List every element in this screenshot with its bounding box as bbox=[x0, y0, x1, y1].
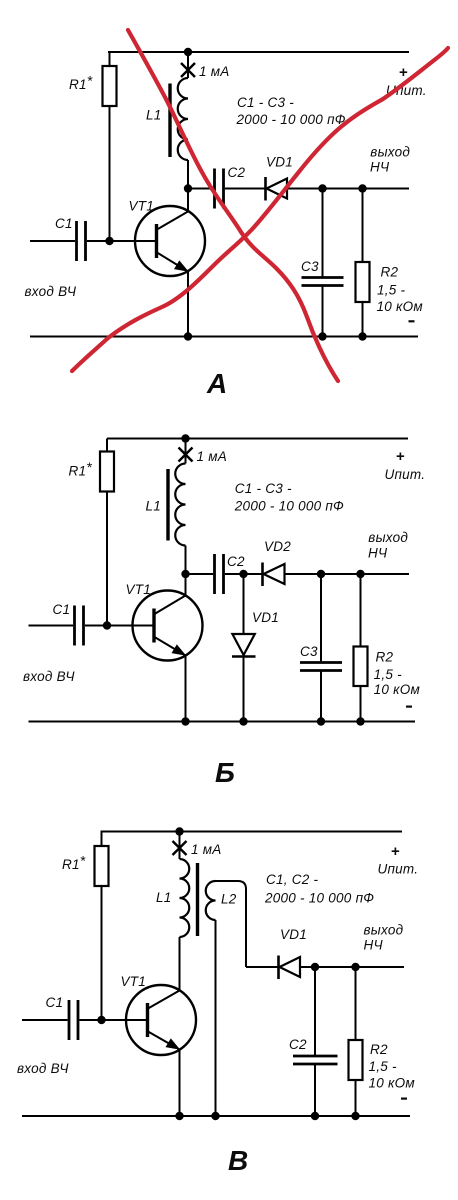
inductor L1 coil V bbox=[180, 859, 190, 937]
node R2 top V bbox=[351, 963, 359, 971]
svg-text:1,5 -: 1,5 - bbox=[377, 283, 406, 298]
node emitter-bottom V bbox=[175, 1112, 183, 1120]
wire output rail A bbox=[287, 188, 409, 190]
diode VD2 bbox=[263, 563, 285, 587]
svg-text:1,5 -: 1,5 - bbox=[369, 1059, 398, 1074]
wire C3 branch A bbox=[322, 189, 324, 337]
svg-text:выход: выход bbox=[368, 530, 408, 545]
wire output rail V bbox=[300, 966, 404, 968]
red cross stroke 2 bbox=[72, 48, 448, 371]
junction dots V bbox=[97, 827, 359, 1120]
capacitor C1 V bbox=[69, 1000, 78, 1040]
wire top rail B bbox=[107, 438, 408, 440]
svg-text:C1: C1 bbox=[55, 216, 73, 231]
wire bottom rail V bbox=[22, 1115, 410, 1117]
node C3 top B bbox=[317, 570, 325, 578]
label letter V bbox=[228, 1145, 248, 1176]
node collector junction A bbox=[184, 184, 192, 192]
node R2 bottom A bbox=[358, 332, 366, 340]
capacitor C2 V bbox=[293, 1056, 338, 1064]
node R2 top A bbox=[358, 184, 366, 192]
wire input V bbox=[22, 1019, 148, 1021]
resistor R2 A bbox=[356, 262, 370, 302]
current marker X V bbox=[173, 841, 187, 855]
svg-text:10 кОм: 10 кОм bbox=[374, 682, 420, 697]
svg-text:Б: Б bbox=[215, 757, 235, 788]
svg-text:1 мА: 1 мА bbox=[199, 64, 230, 79]
labels A bbox=[25, 64, 427, 314]
wire bottom rail B bbox=[29, 721, 416, 723]
svg-text:L1: L1 bbox=[146, 108, 162, 123]
node base junction V bbox=[97, 1016, 105, 1024]
label letter A bbox=[206, 368, 227, 399]
svg-text:НЧ: НЧ bbox=[368, 545, 388, 560]
transistor VT1 V bbox=[126, 985, 196, 1055]
svg-text:2000 - 10 000 пФ: 2000 - 10 000 пФ bbox=[234, 499, 344, 514]
svg-text:С1 - С3 -: С1 - С3 - bbox=[235, 481, 292, 496]
svg-text:L1: L1 bbox=[146, 499, 162, 514]
svg-text:выход: выход bbox=[370, 145, 410, 160]
wire emitter A bbox=[187, 272, 189, 337]
resistor R1 V bbox=[95, 846, 109, 886]
capacitor C2 B bbox=[215, 554, 224, 594]
node VD1 out V bbox=[311, 963, 319, 971]
transformer core V bbox=[196, 863, 199, 936]
wire R1 branch A bbox=[109, 52, 111, 241]
svg-text:VT1: VT1 bbox=[121, 974, 147, 989]
red cross stroke 1 bbox=[128, 30, 338, 381]
label minus V bbox=[401, 1097, 407, 1099]
svg-text:А: А bbox=[206, 368, 227, 399]
diode VD1 B bbox=[232, 634, 256, 657]
node C3 bottom B bbox=[317, 717, 325, 725]
wire top rail A bbox=[108, 51, 409, 53]
capacitor C2 A bbox=[215, 169, 224, 209]
svg-text:VT1: VT1 bbox=[129, 199, 155, 214]
wire collector column V bbox=[179, 832, 181, 991]
svg-text:10 кОм: 10 кОм bbox=[369, 1076, 415, 1091]
capacitor C1 A bbox=[77, 221, 86, 261]
wire emitter B bbox=[185, 656, 187, 722]
inductor L1 coil B bbox=[175, 464, 185, 546]
svg-text:L1: L1 bbox=[156, 890, 172, 905]
label minus A bbox=[409, 320, 415, 322]
svg-text:С1 - С3 -: С1 - С3 - bbox=[237, 95, 294, 110]
diode VD1 A bbox=[266, 177, 288, 201]
transistor VT1 B bbox=[133, 591, 203, 661]
diode VD1 V bbox=[279, 956, 301, 980]
wire R2 branch B bbox=[360, 574, 362, 722]
wire VD1 segment V bbox=[246, 966, 278, 968]
svg-text:VD1: VD1 bbox=[266, 155, 293, 170]
resistor R2 V bbox=[349, 1040, 363, 1080]
node emitter-bottom A bbox=[184, 332, 192, 340]
inductor L1 core A bbox=[168, 84, 171, 158]
resistor R1 bbox=[103, 66, 117, 106]
svg-text:VD1: VD1 bbox=[252, 610, 279, 625]
label minus B bbox=[406, 705, 412, 707]
label plus V bbox=[391, 843, 400, 860]
svg-text:C1: C1 bbox=[46, 995, 64, 1010]
wire top rail V bbox=[101, 831, 403, 833]
wire output rail B bbox=[285, 573, 410, 575]
wire L2 bottom V bbox=[215, 920, 217, 1116]
svg-text:В: В bbox=[228, 1145, 248, 1176]
svg-text:Uпит.: Uпит. bbox=[385, 467, 426, 482]
resistor R2 B bbox=[354, 647, 368, 687]
inductor L2 coil V bbox=[206, 881, 216, 920]
svg-text:L2: L2 bbox=[221, 892, 237, 907]
svg-text:вход ВЧ: вход ВЧ bbox=[17, 1061, 69, 1076]
node VD1 bottom B bbox=[239, 717, 247, 725]
svg-text:НЧ: НЧ bbox=[370, 159, 390, 174]
label plus A bbox=[399, 64, 408, 81]
node R2 top B bbox=[356, 570, 364, 578]
node C3 bottom A bbox=[318, 332, 326, 340]
svg-text:10 кОм: 10 кОм bbox=[377, 299, 423, 314]
node collector junction B bbox=[181, 570, 189, 578]
node emitter-bottom B bbox=[181, 717, 189, 725]
wire VD2 segment B bbox=[244, 573, 263, 575]
svg-text:C2: C2 bbox=[289, 1037, 307, 1052]
node C2 bottom V bbox=[311, 1112, 319, 1120]
node R2 bottom V bbox=[351, 1112, 359, 1120]
svg-text:1 мА: 1 мА bbox=[191, 842, 222, 857]
svg-text:VD2: VD2 bbox=[264, 539, 291, 554]
node VD1 top B bbox=[239, 570, 247, 578]
current marker X A bbox=[181, 63, 195, 77]
svg-text:вход ВЧ: вход ВЧ bbox=[23, 669, 75, 684]
svg-text:C2: C2 bbox=[228, 165, 246, 180]
transistor VT1 A bbox=[135, 206, 205, 276]
label plus B bbox=[396, 448, 405, 465]
svg-text:С1, С2 -: С1, С2 - bbox=[266, 872, 319, 887]
wire output C2 branch A bbox=[188, 188, 265, 190]
node R2 bottom B bbox=[356, 717, 364, 725]
capacitor C3 B bbox=[300, 663, 342, 671]
svg-text:+: + bbox=[399, 64, 408, 81]
svg-text:выход: выход bbox=[364, 923, 404, 938]
wire input A bbox=[30, 240, 157, 242]
svg-text:Uпит.: Uпит. bbox=[378, 862, 419, 877]
resistor R1 B bbox=[100, 452, 114, 492]
svg-text:1,5 -: 1,5 - bbox=[374, 667, 403, 682]
node base junction B bbox=[103, 621, 111, 629]
junction dots B bbox=[103, 434, 365, 725]
capacitor C1 B bbox=[75, 606, 84, 646]
node C3 top A bbox=[318, 184, 326, 192]
inductor L1 core B bbox=[166, 469, 169, 541]
wire emitter V bbox=[179, 1050, 181, 1117]
current marker X B bbox=[179, 448, 193, 462]
svg-text:C2: C2 bbox=[227, 554, 245, 569]
node top junction V bbox=[175, 827, 183, 835]
node L2 bottom V bbox=[211, 1112, 219, 1120]
wire collector column B bbox=[185, 439, 187, 596]
node top junction A bbox=[184, 48, 192, 56]
wire R2 branch A bbox=[362, 189, 364, 337]
label letter B bbox=[215, 757, 235, 788]
svg-text:VT1: VT1 bbox=[126, 582, 152, 597]
wire bottom rail A bbox=[30, 336, 418, 338]
svg-text:НЧ: НЧ bbox=[364, 937, 384, 952]
svg-text:вход ВЧ: вход ВЧ bbox=[25, 284, 77, 299]
wire R2 branch V bbox=[355, 967, 357, 1116]
labels V bbox=[17, 842, 418, 1091]
wire R1 branch V bbox=[101, 832, 103, 1021]
wire L2 top link V bbox=[216, 881, 247, 967]
svg-text:+: + bbox=[391, 843, 400, 860]
wire C2 branch B bbox=[186, 573, 244, 575]
svg-text:2000 - 10 000 пФ: 2000 - 10 000 пФ bbox=[264, 891, 374, 906]
svg-text:1 мА: 1 мА bbox=[197, 449, 228, 464]
svg-text:VD1: VD1 bbox=[280, 927, 307, 942]
wire VD1 branch B bbox=[243, 574, 245, 722]
wire R1 branch B bbox=[106, 439, 108, 626]
inductor L1 coil A bbox=[178, 78, 188, 160]
svg-text:C3: C3 bbox=[300, 644, 318, 659]
node top junction B bbox=[181, 434, 189, 442]
wire collector column A bbox=[187, 52, 189, 212]
svg-text:R2: R2 bbox=[381, 265, 399, 280]
node base junction A bbox=[105, 237, 113, 245]
wire C2 branch V bbox=[314, 967, 316, 1116]
labels B bbox=[23, 449, 425, 697]
svg-text:R2: R2 bbox=[370, 1042, 388, 1057]
svg-text:C3: C3 bbox=[301, 259, 319, 274]
svg-text:R2: R2 bbox=[376, 650, 394, 665]
svg-text:+: + bbox=[396, 448, 405, 465]
junction dots A bbox=[105, 48, 366, 341]
wire C3 branch B bbox=[320, 574, 322, 722]
wire input B bbox=[29, 625, 155, 627]
svg-text:2000 - 10 000 пФ: 2000 - 10 000 пФ bbox=[236, 112, 346, 127]
svg-text:C1: C1 bbox=[53, 602, 71, 617]
capacitor C3 A bbox=[302, 278, 344, 286]
